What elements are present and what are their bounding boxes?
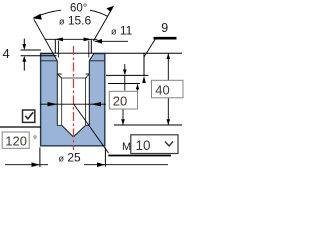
underline below combo <box>108 155 171 157</box>
arc left arrowhead <box>33 14 42 20</box>
dia 25 dim line left segment with arrow <box>5 164 48 166</box>
dia 15.6 right extension <box>90 40 92 53</box>
line under checkbox <box>0 126 41 128</box>
angular dim arc left piece <box>34 10 62 18</box>
dia 15.6 left extension <box>54 40 56 53</box>
thread inner (minor) lines <box>62 78 86 125</box>
part top surface line <box>40 52 105 54</box>
extension line: drill point level right <box>114 124 182 126</box>
angular dim left slant line <box>34 19 53 53</box>
checkbox <box>23 110 35 122</box>
thread outer lines <box>57 74 89 125</box>
svg-text:120: 120 <box>5 134 27 149</box>
svg-text:10: 10 <box>136 138 151 153</box>
dim 9 shaft <box>143 53 145 76</box>
dia 11 right extension <box>88 41 90 58</box>
angular dim arc right piece <box>90 10 108 16</box>
extension line: thread start level right <box>106 74 148 76</box>
dim 40 shaft with up arrow at top <box>167 54 169 81</box>
counterbore bottom step and chamfer <box>57 74 89 78</box>
part cross-section body <box>41 54 105 146</box>
dim 20 shaft lower with down arrow <box>122 109 124 125</box>
angular dim right slant line <box>94 6 114 41</box>
drill point cone <box>62 125 86 137</box>
input box 120 <box>2 132 29 148</box>
dia 15.6 right arrowhead (inside, pointing right) <box>84 38 92 42</box>
svg-text:ø 11: ø 11 <box>111 24 133 38</box>
extension line: top surface to right <box>105 52 182 54</box>
extension line: 4 dim upper <box>21 49 42 51</box>
dia 15.6 left arrowhead (inside, pointing left) <box>55 38 63 42</box>
svg-text:ø 15.6: ø 15.6 <box>59 14 92 28</box>
dia 11 left extension <box>58 41 60 58</box>
dim 4: upper arrow <box>23 39 25 46</box>
dim 40 shaft lower with down arrow <box>167 98 169 125</box>
input box 40 <box>152 80 184 98</box>
dim 4: lower arrow <box>23 61 25 71</box>
svg-text:ø 25: ø 25 <box>59 151 82 165</box>
small up arrow at box corner <box>136 84 139 90</box>
right slant arrowhead <box>107 6 114 12</box>
svg-text:40: 40 <box>155 83 169 98</box>
counterbore walls <box>57 61 89 74</box>
bottom stubs at thread end <box>57 124 89 126</box>
extension line: counterbore level right short <box>108 83 140 85</box>
dim 9 up arrowhead below line <box>142 76 146 83</box>
combo chevron <box>165 142 173 147</box>
thread top inner horizontal <box>62 77 86 79</box>
svg-text:9: 9 <box>161 21 168 35</box>
svg-text:20: 20 <box>113 94 127 109</box>
thread callout line with arrows <box>40 103 106 105</box>
red centerline <box>73 46 75 150</box>
dia 25 left extension <box>39 148 41 168</box>
dia 11 leader arrow <box>95 40 129 42</box>
dim 9 landing bar <box>154 37 177 40</box>
countersink cone outline <box>53 53 94 61</box>
dia 25 dim line right segment with arrow <box>84 164 168 166</box>
combo box <box>131 135 178 154</box>
leader to M10 <box>74 104 109 153</box>
dim 9 diagonal leader <box>144 39 156 57</box>
svg-text:4: 4 <box>3 46 10 61</box>
countersink bottom line across part <box>40 60 105 62</box>
input box 20 <box>109 91 137 109</box>
svg-text:°: ° <box>33 135 37 146</box>
dim 20 shaft upper with down arrow <box>124 64 126 72</box>
svg-text:M: M <box>122 141 131 153</box>
dia 15.6 dimension line <box>45 38 98 40</box>
extension line: 4 dim lower <box>21 55 57 57</box>
hole cavity (white) <box>53 53 94 137</box>
dim 20 shaft mid with up arrow <box>124 75 126 90</box>
dia 25 right extension <box>104 148 106 167</box>
